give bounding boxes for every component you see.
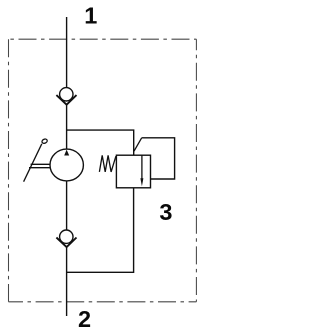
hand pump P1: flow triangle (up)	[64, 150, 69, 156]
check valve V1 (ball in seat)	[56, 88, 76, 105]
wire: V2 down to port 2 (past bottom tee)	[66, 247, 68, 316]
hand pump P1: lever arm with knob	[24, 138, 51, 181]
relief valve 3: body square	[116, 155, 150, 188]
hand pump P1: body circle	[50, 149, 83, 181]
wire: pump outlet to check valve V2	[66, 181, 68, 230]
svg-text:3: 3	[159, 199, 172, 225]
wire: relief valve outlet down and to main line	[67, 188, 134, 272]
relief valve 3: pilot tap (diagonal)	[134, 138, 142, 151]
relief valve 3: spring	[99, 155, 116, 172]
check valve V2 (ball in seat)	[56, 230, 76, 247]
svg-text:2: 2	[78, 306, 91, 332]
relief valve 3: internal flow line with arrow (down)	[140, 155, 143, 186]
enclosure border (dash-dot box)	[9, 39, 197, 302]
wire: V1 to pump inlet (through tee)	[66, 105, 68, 150]
wire: tee branch to relief valve inlet	[67, 130, 134, 155]
svg-text:1: 1	[84, 3, 97, 29]
relief valve 3: pilot box loop	[142, 138, 175, 179]
wire: port 1 down to check valve V1	[66, 17, 68, 88]
